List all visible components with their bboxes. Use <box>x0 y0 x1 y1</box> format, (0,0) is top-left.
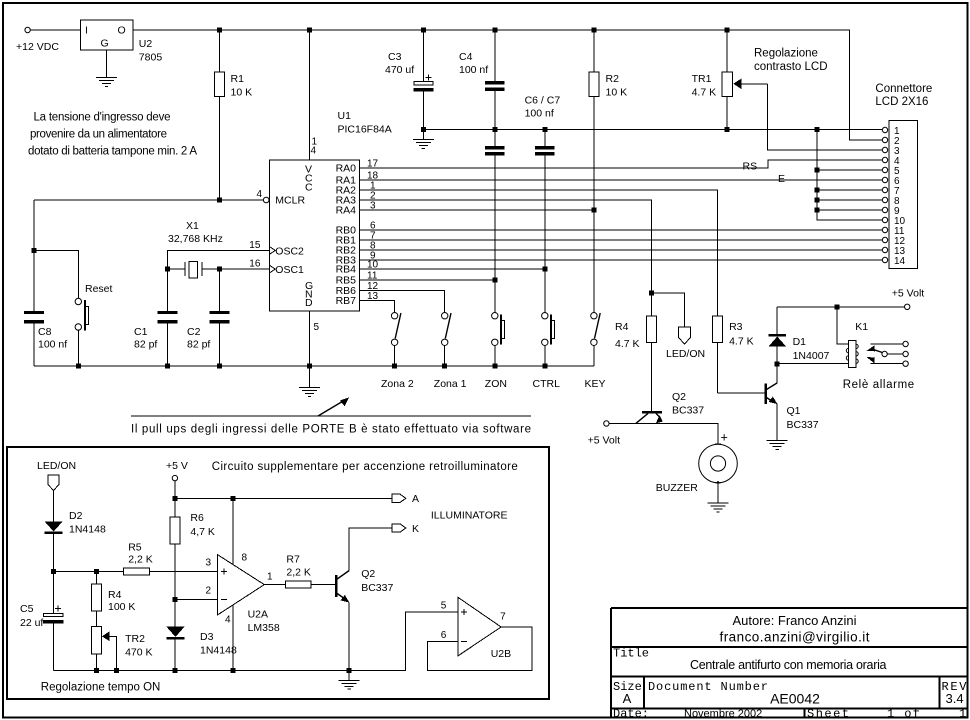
svg-text:32,768 KHz: 32,768 KHz <box>168 233 223 245</box>
wire RA2 to R3 <box>360 190 718 316</box>
pin 5 GND wire <box>310 311 320 366</box>
svg-text:G: G <box>101 38 109 50</box>
svg-text:C2: C2 <box>187 326 201 338</box>
resistor R5 2,2K <box>124 542 153 575</box>
svg-text:Date:: Date: <box>613 707 649 720</box>
ground (U2) <box>96 77 117 86</box>
wire Q1 collector up to D1 node <box>776 364 778 383</box>
resistor R1 <box>214 30 252 200</box>
junction dots LCD ground stubs <box>815 168 820 213</box>
wire RB6 to Zona1 <box>360 291 445 314</box>
connector LCD 2X16 <box>875 83 932 269</box>
junction dot R1/MCLR <box>217 198 222 203</box>
svg-text:I: I <box>85 25 88 37</box>
wire to K1 coil bottom <box>777 363 848 365</box>
svg-text:3.4: 3.4 <box>946 691 964 706</box>
svg-text:R5: R5 <box>128 542 142 554</box>
svg-text:R1: R1 <box>231 73 245 85</box>
wire OSC2 to crystal <box>167 250 269 269</box>
switch Zona 2 <box>381 313 414 391</box>
wire +5V rail to A <box>175 497 392 499</box>
svg-text:U1: U1 <box>338 110 352 122</box>
wire RB7 to Zona2 <box>360 301 395 314</box>
svg-text:AE0042: AE0042 <box>770 691 820 707</box>
svg-text:5: 5 <box>314 322 320 333</box>
capacitor C6 (debounce ZON) <box>485 95 560 314</box>
svg-text:15: 15 <box>249 240 261 251</box>
svg-text:dotato di batteria tampone min: dotato di batteria tampone min. 2 A <box>28 146 197 158</box>
svg-text:LM358: LM358 <box>248 622 280 634</box>
resistor R6 4,7K <box>170 498 215 626</box>
wire +5V top rail <box>133 30 882 140</box>
connector K <box>392 523 419 535</box>
svg-text:LCD 2X16: LCD 2X16 <box>875 96 928 108</box>
svg-text:100 nf: 100 nf <box>459 64 488 76</box>
trimmer TR1 4.7K (LCD contrast) <box>692 30 768 130</box>
wire RA0 to LCD pin4 (RS) <box>360 160 883 173</box>
svg-text:RA4: RA4 <box>336 205 357 217</box>
ground (box) <box>339 671 360 690</box>
svg-text:C: C <box>305 182 313 194</box>
svg-text:Regolazione: Regolazione <box>754 48 818 60</box>
svg-text:4.7 K: 4.7 K <box>729 336 754 348</box>
pin 4 MCLR bubble <box>257 189 270 203</box>
svg-text:R6: R6 <box>190 512 204 524</box>
svg-text:Document Number: Document Number <box>648 680 768 694</box>
note: Regolazione contrasto LCD <box>754 48 828 74</box>
svg-text:1N4148: 1N4148 <box>69 524 106 536</box>
svg-text:1N4148: 1N4148 <box>200 645 237 657</box>
svg-text:contrasto LCD: contrasto LCD <box>754 61 828 73</box>
svg-text:D: D <box>305 297 313 309</box>
wire RB3 to LCD pin14 <box>360 259 883 261</box>
transistor Q1 BC337 (relay driver) <box>766 383 819 431</box>
svg-text:Regolazione tempo ON: Regolazione tempo ON <box>41 682 161 694</box>
wire +12VDC to U2 <box>30 29 80 31</box>
junction dot RA4/KEY <box>591 208 596 213</box>
crystal X1 32,768 KHz <box>165 220 223 278</box>
svg-text:+5 Volt: +5 Volt <box>588 435 620 447</box>
note: input voltage text <box>28 112 197 158</box>
trimmer TR2 470K <box>91 627 152 671</box>
svg-text:470 K: 470 K <box>125 647 152 659</box>
svg-text:O: O <box>118 25 126 37</box>
svg-text:A: A <box>623 691 632 706</box>
svg-text:8: 8 <box>242 553 248 564</box>
svg-text:BC337: BC337 <box>787 419 819 431</box>
svg-text:4: 4 <box>257 189 263 200</box>
svg-text:22 uf: 22 uf <box>20 617 43 629</box>
junction dots ground rail <box>94 668 352 673</box>
svg-text:Relè allarme: Relè allarme <box>843 379 915 391</box>
svg-text:C1: C1 <box>134 326 148 338</box>
svg-text:CTRL: CTRL <box>533 378 561 390</box>
junction dots bottom rail <box>76 364 548 369</box>
resistor R4 100K <box>91 571 135 626</box>
wire +5V relay feed <box>777 306 904 308</box>
capacitor C4 100nf <box>459 30 504 130</box>
svg-text:E: E <box>778 173 785 185</box>
svg-text:Connettore: Connettore <box>875 83 932 95</box>
wire ground rail (to LCD pin1) <box>423 129 882 131</box>
pin numbers RB0-RB7 <box>367 221 379 303</box>
wire LCD pin9 ground stub <box>817 209 882 211</box>
switch Zona 1 <box>434 313 467 391</box>
wire LCD pin8 ground stub <box>817 199 882 201</box>
capacitor C3 470uf <box>385 30 433 130</box>
relay contacts <box>843 341 915 391</box>
svg-text:82 pf: 82 pf <box>134 339 157 351</box>
svg-text:provenire da un alimentatore: provenire da un alimentatore <box>30 129 167 141</box>
junction dots on top rail <box>217 28 730 33</box>
capacitor C5 22uf <box>20 571 63 670</box>
capacitor C7 (debounce CTRL) <box>535 130 554 314</box>
svg-text:U2A: U2A <box>248 609 268 621</box>
svg-text:Reset: Reset <box>85 283 113 295</box>
wire RA1 to LCD pin6 (E) <box>360 173 883 185</box>
svg-text:17: 17 <box>367 159 379 170</box>
diode D1 1N4007 <box>769 307 830 364</box>
LCD pin circles 1-14 <box>882 127 887 262</box>
svg-text:La tensione d'ingresso deve: La tensione d'ingresso deve <box>34 112 171 124</box>
resistor R7 2,2K <box>286 554 335 588</box>
wire U2 G pin <box>105 50 107 77</box>
svg-text:4.7 K: 4.7 K <box>692 87 717 99</box>
wire RB2 to LCD pin13 <box>360 249 883 251</box>
svg-text:KEY: KEY <box>585 378 606 390</box>
relay coil K1 <box>846 321 868 368</box>
resistor R2 (pull-up RA4/KEY) <box>589 30 627 313</box>
connector LED/ON (top) <box>666 327 705 360</box>
svg-text:MCLR: MCLR <box>275 195 305 207</box>
wire MCLR down to C8 <box>33 200 35 311</box>
svg-text:10 K: 10 K <box>606 87 628 99</box>
wire RA4 to KEY column <box>360 209 594 211</box>
diode D3 1N4148 <box>166 627 237 671</box>
svg-text:BUZZER: BUZZER <box>656 482 698 494</box>
pin 14 VCC wire <box>310 30 318 160</box>
ground (rail under C3) <box>413 130 434 149</box>
connector LED/ON (box input) <box>37 460 76 522</box>
svg-text:7: 7 <box>500 612 506 623</box>
svg-text:6: 6 <box>441 630 447 641</box>
wire Q2 collector to K <box>349 528 392 571</box>
svg-text:OSC2: OSC2 <box>275 246 304 258</box>
svg-text:100 K: 100 K <box>108 601 135 613</box>
pushbutton CTRL <box>533 313 561 391</box>
svg-text:7805: 7805 <box>139 52 163 64</box>
junction dot reset branch <box>32 248 37 253</box>
svg-text:4,7 K: 4,7 K <box>190 526 215 538</box>
wire to LED/ON connector <box>652 293 685 327</box>
wire Q2 to buzzer <box>609 424 718 445</box>
wire LCD ground vertical to pin10 <box>817 130 882 221</box>
svg-text:Zona 2: Zona 2 <box>381 378 414 390</box>
switch KEY <box>585 313 606 391</box>
pin 15 OSC2 <box>249 240 275 254</box>
op-amp U2B (unused half) <box>428 597 532 671</box>
wire TR1 wiper to LCD pin3 <box>768 84 883 150</box>
resistor R3 4.7K <box>712 316 753 393</box>
wire LCD pin7 ground stub <box>817 189 882 191</box>
terminal +12 VDC <box>16 27 59 53</box>
svg-text:2: 2 <box>206 586 212 597</box>
svg-text:LED/ON: LED/ON <box>666 348 705 360</box>
svg-text:D2: D2 <box>69 510 83 522</box>
wire Q1 emitter to ground <box>776 404 778 441</box>
transistor Q2 BC337 (backlight) <box>336 568 393 603</box>
pushbutton ZON <box>485 313 507 391</box>
svg-text:TR1: TR1 <box>692 73 712 85</box>
svg-text:RA0: RA0 <box>336 163 357 175</box>
note: pull-ups software (overline + arrow) <box>131 397 531 435</box>
svg-text:Sheet: Sheet <box>807 707 849 720</box>
terminal +5 V <box>166 460 188 498</box>
svg-text:100 nf: 100 nf <box>38 339 67 351</box>
svg-text:470 uf: 470 uf <box>385 64 414 76</box>
transistor Q2 BC337 (buzzer driver) <box>636 391 704 423</box>
junction dots <box>51 569 99 574</box>
wire bottom ground rail <box>34 365 594 367</box>
wire to Reset switch <box>34 250 78 299</box>
svg-text:BC337: BC337 <box>672 405 704 417</box>
svg-text:D3: D3 <box>200 631 214 643</box>
backlight sub-circuit box <box>7 447 549 699</box>
svg-text:3: 3 <box>206 558 212 569</box>
switch Reset <box>75 283 112 366</box>
svg-text:16: 16 <box>249 259 261 270</box>
wire OSC1 to crystal <box>220 268 270 270</box>
svg-text:100 nf: 100 nf <box>525 108 554 120</box>
svg-text:2,2 K: 2,2 K <box>286 567 311 579</box>
svg-text:BC337: BC337 <box>361 582 393 594</box>
junction dot LED branch <box>649 291 654 296</box>
wire LCD pin5 ground stub <box>817 169 882 171</box>
svg-text:C8: C8 <box>38 326 52 338</box>
LCD pin numbers <box>894 126 906 267</box>
junction dots on +5V rail <box>172 496 235 501</box>
svg-text:82 pf: 82 pf <box>187 339 210 351</box>
wire RB5 to ZON column <box>360 279 495 281</box>
wire - input row <box>175 598 218 600</box>
terminal +5 Volt (Q2 collector) <box>588 421 620 447</box>
wire RB4 to CTRL column <box>360 268 545 270</box>
svg-text:LED/ON: LED/ON <box>37 460 76 472</box>
wire RB1 to LCD pin12 <box>360 239 883 241</box>
svg-text:+5 Volt: +5 Volt <box>892 288 924 300</box>
svg-text:ZON: ZON <box>485 378 507 390</box>
svg-text:K1: K1 <box>855 321 868 333</box>
svg-text:2,2 K: 2,2 K <box>128 554 153 566</box>
svg-text:1N4007: 1N4007 <box>793 350 830 362</box>
svg-text:ILLUMINATORE: ILLUMINATORE <box>431 510 508 522</box>
svg-text:U2: U2 <box>139 38 153 50</box>
junction dots ground rail <box>421 127 820 132</box>
svg-text:R7: R7 <box>286 554 300 566</box>
svg-text:+12 VDC: +12 VDC <box>16 41 59 53</box>
junction dot D1 anode node <box>775 362 780 367</box>
svg-text:RB7: RB7 <box>336 295 357 307</box>
svg-text:C3: C3 <box>388 51 402 63</box>
connector A <box>392 493 419 505</box>
svg-text:Novembre 2002: Novembre 2002 <box>684 708 762 720</box>
wire to K1 coil top <box>837 307 849 344</box>
capacitor C8 100nf <box>24 311 67 366</box>
svg-text:A: A <box>412 493 419 505</box>
IC U1 PIC16F84A <box>270 110 392 311</box>
svg-text:R4: R4 <box>108 589 122 601</box>
svg-text:4: 4 <box>225 615 231 626</box>
svg-text:RS: RS <box>743 161 758 173</box>
svg-text:Circuito supplementare per acc: Circuito supplementare per accenzione re… <box>212 461 518 473</box>
svg-text:X1: X1 <box>186 220 199 232</box>
junction dot RB5/ZON <box>492 278 497 283</box>
svg-text:C5: C5 <box>20 603 34 615</box>
wire RA3 to R4 <box>360 200 652 316</box>
svg-text:OSC1: OSC1 <box>275 264 304 276</box>
svg-text:1 of: 1 of <box>887 707 920 720</box>
wire R3 to Q1 base <box>717 392 764 394</box>
svg-text:5: 5 <box>441 601 447 612</box>
wire MCLR row <box>34 199 263 201</box>
capacitor C2 82pf <box>187 269 230 366</box>
resistor R4 4.7K <box>615 316 657 411</box>
svg-text:4: 4 <box>311 146 317 157</box>
pin numbers RA0-RA4 <box>367 159 379 212</box>
regulator U2 7805 <box>80 20 162 63</box>
op-amp U2A LM358 <box>206 498 280 670</box>
svg-text:U2B: U2B <box>491 648 511 660</box>
wire + input row <box>54 570 218 572</box>
svg-text:PIC16F84A: PIC16F84A <box>338 124 392 136</box>
svg-text:Q2: Q2 <box>672 391 686 403</box>
buzzer <box>656 431 738 504</box>
svg-text:R4: R4 <box>615 321 629 333</box>
svg-text:R2: R2 <box>606 73 620 85</box>
svg-text:1: 1 <box>959 707 966 720</box>
svg-text:Q2: Q2 <box>361 568 375 580</box>
terminal +5 Volt (relay) <box>892 288 924 310</box>
svg-text:+5 V: +5 V <box>166 460 188 472</box>
svg-text:Centrale antifurto con memoria: Centrale antifurto con memoria oraria <box>690 658 887 672</box>
wire U2A output <box>264 584 285 586</box>
svg-text:Autore: Franco Anzini: Autore: Franco Anzini <box>733 613 857 628</box>
svg-text:Il pull ups degli ingressi del: Il pull ups degli ingressi delle PORTE B… <box>131 424 531 436</box>
svg-text:franco.anzini@virgilio.it: franco.anzini@virgilio.it <box>720 630 870 645</box>
capacitor C1 82pf <box>134 269 177 366</box>
svg-text:4.7 K: 4.7 K <box>615 338 640 350</box>
svg-text:TR2: TR2 <box>125 633 145 645</box>
ground (main rail) <box>299 366 320 396</box>
svg-text:C6 / C7: C6 / C7 <box>525 95 561 107</box>
title block <box>611 608 967 720</box>
wire Q2 emitter to ground rail <box>348 603 350 671</box>
junction dot coil feed <box>834 304 839 309</box>
svg-text:K: K <box>412 523 419 535</box>
svg-text:14: 14 <box>894 256 906 267</box>
junction dot R6/D3 node <box>172 597 177 602</box>
svg-text:D1: D1 <box>793 336 807 348</box>
svg-text:Q1: Q1 <box>787 405 801 417</box>
wire RB0 to LCD pin11 <box>360 229 883 231</box>
ground (Q1) <box>767 440 788 449</box>
svg-text:10 K: 10 K <box>231 87 253 99</box>
pin 16 OSC1 <box>249 259 275 273</box>
svg-text:+: + <box>721 431 728 445</box>
svg-text:R3: R3 <box>729 321 743 333</box>
diode D2 1N4148 <box>45 510 106 571</box>
svg-text:1: 1 <box>267 572 273 583</box>
ground (buzzer) <box>708 503 729 512</box>
svg-text:C4: C4 <box>459 51 473 63</box>
svg-text:Title: Title <box>613 647 649 661</box>
junction dot RB4/CTRL <box>542 267 547 272</box>
svg-text:Zona 1: Zona 1 <box>434 378 467 390</box>
wire box ground rail <box>54 612 458 671</box>
